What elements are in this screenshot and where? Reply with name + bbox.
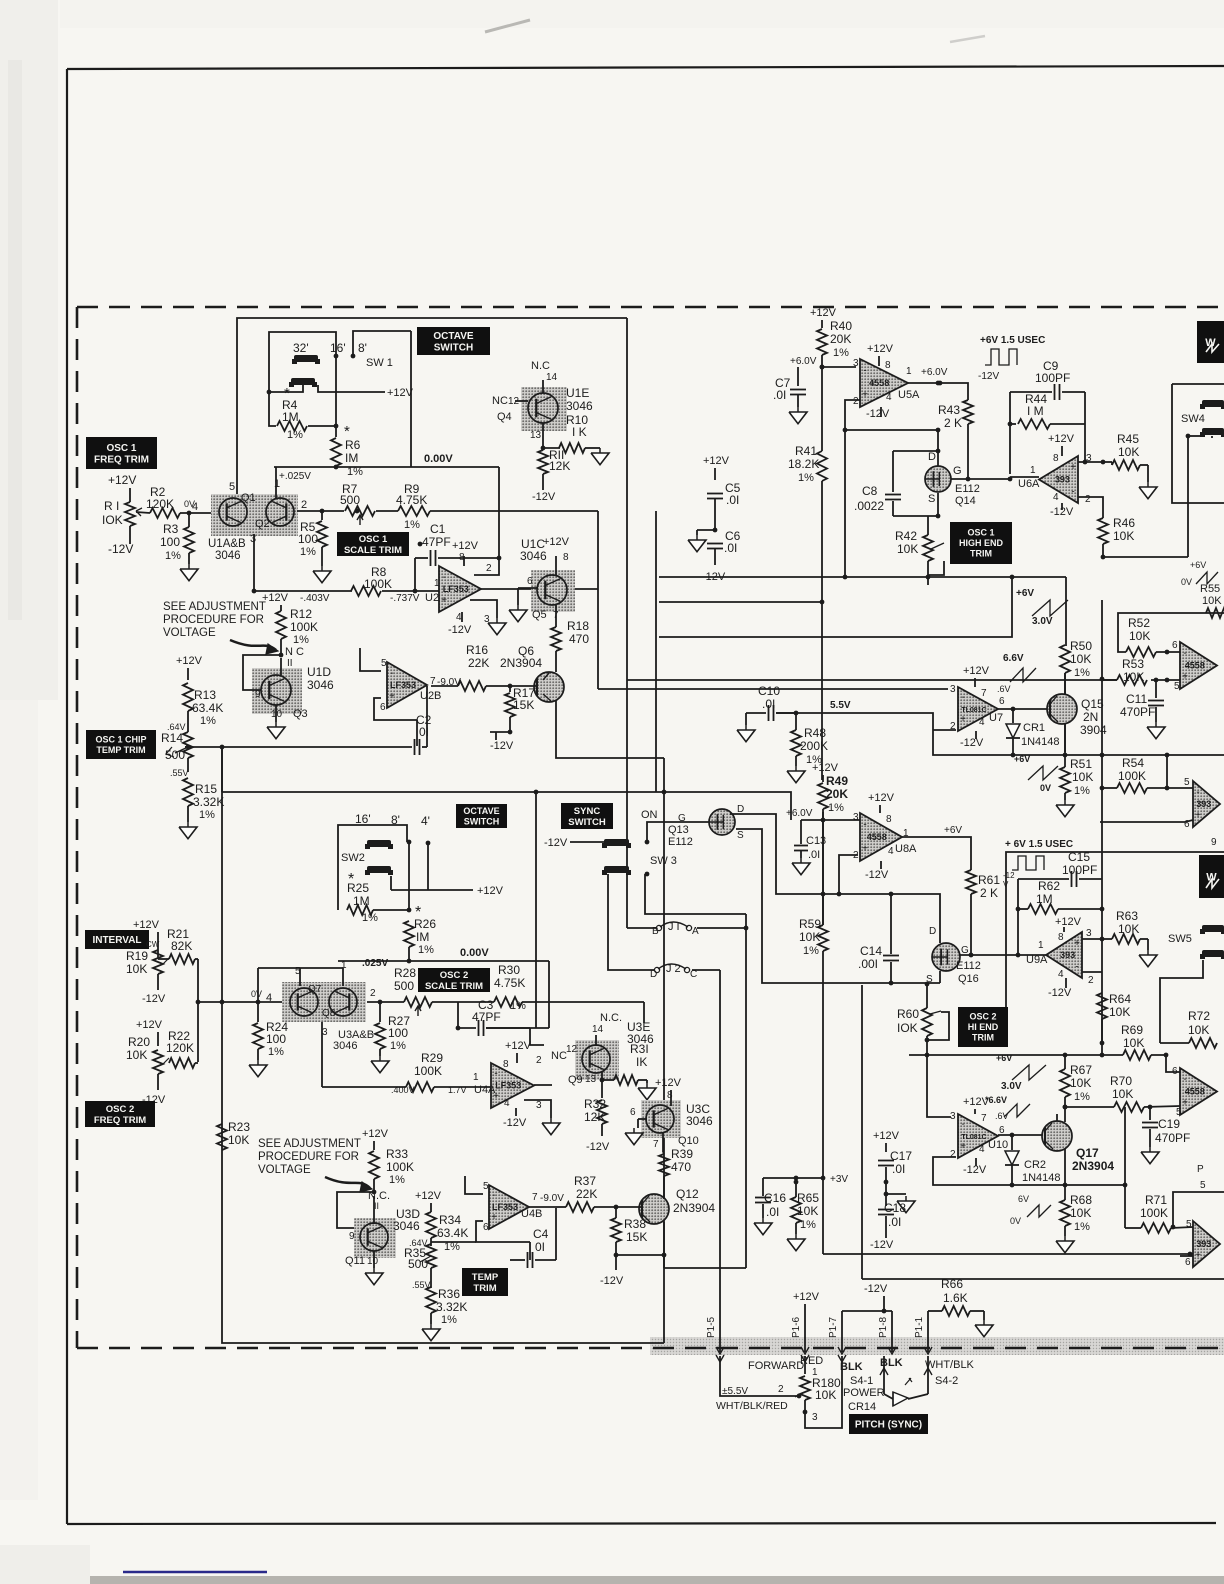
svg-text:R67: R67 bbox=[1070, 1063, 1092, 1077]
svg-text:+12V: +12V bbox=[415, 1190, 442, 1202]
svg-text:12: 12 bbox=[566, 1044, 578, 1055]
svg-text:C10: C10 bbox=[758, 684, 780, 698]
svg-text:C1: C1 bbox=[430, 522, 446, 536]
svg-text:-: - bbox=[1196, 787, 1199, 798]
svg-text:3.0V: 3.0V bbox=[1032, 616, 1053, 627]
svg-text:R12: R12 bbox=[290, 607, 312, 621]
svg-text:PROCEDURE FOR: PROCEDURE FOR bbox=[163, 614, 264, 626]
svg-text:10K: 10K bbox=[126, 1048, 147, 1062]
svg-text:.6V: .6V bbox=[995, 1111, 1009, 1121]
svg-text:S: S bbox=[737, 830, 744, 841]
svg-text:R59: R59 bbox=[799, 917, 821, 931]
svg-text:+12V: +12V bbox=[136, 1019, 163, 1031]
svg-text:393: 393 bbox=[1196, 1239, 1211, 1249]
svg-text:U4B: U4B bbox=[521, 1208, 542, 1220]
svg-text:4.75K: 4.75K bbox=[494, 976, 525, 990]
svg-text:OSC 1: OSC 1 bbox=[359, 534, 388, 545]
svg-text:U6A: U6A bbox=[1018, 478, 1040, 490]
svg-text:SW2: SW2 bbox=[341, 852, 365, 864]
svg-text:OSC 1: OSC 1 bbox=[106, 443, 136, 454]
svg-text:Q1: Q1 bbox=[241, 492, 256, 504]
svg-text:7: 7 bbox=[981, 1113, 987, 1124]
svg-text:R30: R30 bbox=[498, 963, 520, 977]
svg-text:22K: 22K bbox=[576, 1187, 597, 1201]
svg-text:1%: 1% bbox=[418, 944, 434, 956]
svg-text:TRIM: TRIM bbox=[473, 1283, 496, 1294]
svg-text:+12V: +12V bbox=[133, 919, 160, 931]
svg-text:4: 4 bbox=[1053, 492, 1059, 503]
svg-text:R41: R41 bbox=[795, 444, 817, 458]
svg-text:2: 2 bbox=[536, 1055, 542, 1066]
svg-text:2: 2 bbox=[486, 563, 492, 574]
svg-text:Q15: Q15 bbox=[1081, 697, 1104, 711]
svg-text:2 K: 2 K bbox=[980, 886, 998, 900]
svg-text:R53: R53 bbox=[1122, 657, 1144, 671]
svg-text:.0I: .0I bbox=[892, 1162, 905, 1176]
svg-text:10K: 10K bbox=[1118, 922, 1139, 936]
svg-text:1%: 1% bbox=[833, 347, 849, 359]
svg-text:200K: 200K bbox=[800, 739, 828, 753]
svg-text:SWITCH: SWITCH bbox=[464, 816, 500, 826]
svg-text:20K: 20K bbox=[826, 787, 848, 801]
svg-text:SW 1: SW 1 bbox=[366, 357, 393, 369]
svg-text:Q5: Q5 bbox=[532, 609, 547, 621]
svg-text:1%: 1% bbox=[268, 1046, 284, 1058]
svg-text:.00I: .00I bbox=[858, 957, 878, 971]
svg-text:15K: 15K bbox=[513, 698, 534, 712]
svg-text:V: V bbox=[1003, 880, 1009, 889]
svg-text:2: 2 bbox=[1085, 494, 1091, 505]
svg-text:-12V: -12V bbox=[532, 491, 556, 503]
svg-text:.0I: .0I bbox=[724, 541, 737, 555]
svg-text:14: 14 bbox=[546, 372, 558, 383]
svg-text:WHT/BLK/RED: WHT/BLK/RED bbox=[716, 1400, 788, 1412]
svg-text:RED: RED bbox=[800, 1355, 823, 1367]
svg-text:-: - bbox=[494, 1069, 497, 1080]
svg-text:470: 470 bbox=[671, 1160, 691, 1174]
svg-text:9: 9 bbox=[255, 689, 261, 700]
svg-text:5: 5 bbox=[483, 1181, 489, 1192]
svg-text:-12V: -12V bbox=[108, 542, 133, 556]
svg-text:+12V: +12V bbox=[1048, 433, 1075, 445]
svg-text:R16: R16 bbox=[466, 643, 488, 657]
svg-text:LF353: LF353 bbox=[443, 584, 469, 594]
svg-text:R6: R6 bbox=[345, 438, 361, 452]
svg-text:-: - bbox=[492, 1190, 495, 1201]
svg-text:IOK: IOK bbox=[102, 513, 123, 527]
svg-text:+: + bbox=[491, 1212, 497, 1223]
svg-text:10K: 10K bbox=[1070, 1076, 1091, 1090]
svg-text:R19: R19 bbox=[126, 949, 148, 963]
svg-text:+: + bbox=[960, 714, 966, 725]
svg-text:9: 9 bbox=[349, 1231, 355, 1242]
svg-text:100: 100 bbox=[298, 532, 318, 546]
svg-text:100K: 100K bbox=[364, 577, 392, 591]
svg-text:+12V: +12V bbox=[176, 655, 203, 667]
svg-text:82K: 82K bbox=[171, 939, 192, 953]
svg-text:II: II bbox=[287, 658, 293, 669]
svg-text:Q14: Q14 bbox=[955, 495, 976, 507]
svg-text:+: + bbox=[1182, 1098, 1188, 1109]
svg-text:R13: R13 bbox=[194, 688, 216, 702]
svg-text:SEE ADJUSTMENT: SEE ADJUSTMENT bbox=[258, 1138, 361, 1150]
svg-text:+6V: +6V bbox=[1016, 588, 1034, 599]
svg-text:*6.6V: *6.6V bbox=[985, 1095, 1007, 1105]
svg-text:1%: 1% bbox=[389, 1174, 405, 1186]
svg-text:HI END: HI END bbox=[968, 1022, 999, 1032]
svg-text:S: S bbox=[928, 493, 935, 505]
svg-text:+6.0V: +6.0V bbox=[790, 356, 817, 367]
svg-text:+6.0V: +6.0V bbox=[921, 367, 948, 378]
svg-text:+: + bbox=[1195, 810, 1201, 821]
svg-text:-12V: -12V bbox=[544, 837, 568, 849]
svg-text:470PF: 470PF bbox=[1120, 705, 1155, 719]
svg-text:PROCEDURE FOR: PROCEDURE FOR bbox=[258, 1151, 359, 1163]
svg-text:R20: R20 bbox=[128, 1035, 150, 1049]
svg-text:Q7: Q7 bbox=[308, 984, 322, 995]
svg-text:8: 8 bbox=[886, 814, 892, 825]
svg-text:1.6K: 1.6K bbox=[943, 1291, 968, 1305]
svg-text:S4-1: S4-1 bbox=[850, 1375, 873, 1387]
svg-text:SW5: SW5 bbox=[1168, 933, 1192, 945]
svg-text:+12V: +12V bbox=[793, 1291, 820, 1303]
svg-text:I K: I K bbox=[572, 425, 587, 439]
svg-text:-: - bbox=[1071, 487, 1074, 498]
svg-text:Q16: Q16 bbox=[958, 973, 979, 985]
svg-text:R3I: R3I bbox=[630, 1042, 649, 1056]
svg-text:0I: 0I bbox=[535, 1240, 545, 1254]
svg-text:500: 500 bbox=[394, 979, 414, 993]
svg-text:16': 16' bbox=[355, 812, 371, 826]
svg-text:0.00V: 0.00V bbox=[424, 453, 453, 465]
svg-text:.55V: .55V bbox=[170, 768, 189, 778]
svg-text:Q3: Q3 bbox=[293, 708, 308, 720]
svg-text:-12V: -12V bbox=[1048, 987, 1072, 999]
svg-text:N.C.: N.C. bbox=[600, 1012, 622, 1024]
svg-text:R69: R69 bbox=[1121, 1023, 1143, 1037]
svg-text:-.403V: -.403V bbox=[300, 593, 330, 604]
svg-text:4: 4 bbox=[979, 1144, 985, 1155]
svg-text:+12V: +12V bbox=[867, 343, 894, 355]
svg-text:SW4: SW4 bbox=[1181, 413, 1205, 425]
svg-text:-12V: -12V bbox=[586, 1141, 610, 1153]
svg-text:Q12: Q12 bbox=[676, 1187, 699, 1201]
svg-text:Q10: Q10 bbox=[678, 1135, 699, 1147]
svg-text:-12V: -12V bbox=[870, 1239, 894, 1251]
svg-text:1%: 1% bbox=[828, 802, 844, 814]
svg-text:R63: R63 bbox=[1116, 909, 1138, 923]
svg-text:R37: R37 bbox=[574, 1174, 596, 1188]
svg-text:.0I: .0I bbox=[766, 1205, 779, 1219]
svg-text:-: - bbox=[1075, 962, 1078, 973]
svg-text:10K: 10K bbox=[1202, 595, 1222, 607]
svg-text:U1D: U1D bbox=[307, 665, 331, 679]
svg-text:P1-1: P1-1 bbox=[914, 1316, 925, 1338]
svg-text:4: 4 bbox=[888, 846, 894, 857]
svg-text:18.2K: 18.2K bbox=[788, 457, 819, 471]
svg-text:8: 8 bbox=[1058, 932, 1064, 943]
svg-text:8: 8 bbox=[667, 1090, 673, 1101]
svg-text:+12V: +12V bbox=[703, 455, 730, 467]
svg-text:2: 2 bbox=[1088, 975, 1094, 986]
svg-text:R28: R28 bbox=[394, 966, 416, 980]
svg-text:B: B bbox=[652, 926, 659, 937]
svg-text:100: 100 bbox=[388, 1026, 408, 1040]
svg-text:+12V: +12V bbox=[873, 1130, 900, 1142]
svg-text:C8: C8 bbox=[862, 484, 878, 498]
svg-text:3046: 3046 bbox=[686, 1114, 713, 1128]
svg-text:2: 2 bbox=[301, 499, 307, 511]
svg-text:-12V: -12V bbox=[142, 993, 166, 1005]
svg-text:-12V: -12V bbox=[865, 869, 889, 881]
svg-text:0V: 0V bbox=[1010, 1216, 1021, 1226]
svg-text:12K: 12K bbox=[549, 459, 570, 473]
svg-text:-12: -12 bbox=[1003, 871, 1015, 880]
svg-text:IM: IM bbox=[345, 451, 358, 465]
svg-text:R43: R43 bbox=[938, 403, 960, 417]
svg-text:1%: 1% bbox=[200, 715, 216, 727]
svg-text:TL081C: TL081C bbox=[961, 1134, 986, 1141]
svg-text:SWITCH: SWITCH bbox=[434, 342, 473, 353]
svg-text:HIGH END: HIGH END bbox=[959, 538, 1004, 548]
svg-text:8: 8 bbox=[1053, 453, 1059, 464]
svg-text:-12V: -12V bbox=[490, 740, 514, 752]
svg-text:5: 5 bbox=[1184, 777, 1190, 788]
svg-text:FORWARD: FORWARD bbox=[748, 1360, 804, 1372]
svg-text:6: 6 bbox=[527, 576, 533, 587]
svg-text:U10: U10 bbox=[988, 1139, 1008, 1151]
svg-text:R33: R33 bbox=[386, 1147, 408, 1161]
svg-text:393: 393 bbox=[1055, 475, 1070, 485]
svg-text:R52: R52 bbox=[1128, 616, 1150, 630]
svg-text:POWER: POWER bbox=[843, 1387, 885, 1399]
svg-text:C4: C4 bbox=[533, 1227, 549, 1241]
svg-text:+: + bbox=[862, 843, 868, 854]
svg-text:+12V: +12V bbox=[477, 885, 504, 897]
svg-text:CR1: CR1 bbox=[1023, 722, 1045, 734]
svg-text:I M: I M bbox=[1027, 404, 1044, 418]
svg-text:120K: 120K bbox=[146, 497, 174, 511]
svg-text:U8A: U8A bbox=[895, 843, 917, 855]
svg-text:LF353: LF353 bbox=[492, 1202, 518, 1212]
svg-text:8: 8 bbox=[503, 1059, 509, 1070]
svg-text:1%: 1% bbox=[1074, 1091, 1090, 1103]
svg-text:FREQ TRIM: FREQ TRIM bbox=[94, 1115, 146, 1126]
svg-text:1%: 1% bbox=[293, 634, 309, 646]
svg-text:5: 5 bbox=[229, 481, 235, 493]
svg-text:100K: 100K bbox=[290, 620, 318, 634]
svg-text:4: 4 bbox=[192, 501, 198, 513]
svg-text:+6V: +6V bbox=[996, 1053, 1012, 1063]
svg-text:.6V: .6V bbox=[997, 684, 1011, 694]
svg-text:-: - bbox=[863, 819, 866, 830]
svg-text:R60: R60 bbox=[897, 1007, 919, 1021]
svg-text:.025V: .025V bbox=[362, 958, 388, 969]
svg-text:OCTAVE: OCTAVE bbox=[463, 806, 499, 816]
svg-text:+: + bbox=[1182, 672, 1188, 683]
svg-text:47PF: 47PF bbox=[422, 535, 451, 549]
svg-text:NC: NC bbox=[551, 1050, 567, 1062]
svg-text:IM: IM bbox=[416, 930, 429, 944]
svg-text:4558: 4558 bbox=[869, 378, 889, 388]
svg-text:1%: 1% bbox=[199, 809, 215, 821]
svg-text:+6V: +6V bbox=[1014, 754, 1030, 764]
svg-text:2N3904: 2N3904 bbox=[500, 656, 542, 670]
svg-text:P1-8: P1-8 bbox=[878, 1316, 889, 1338]
svg-text:3: 3 bbox=[950, 1111, 956, 1122]
svg-text:.0022: .0022 bbox=[854, 499, 884, 513]
svg-text:+6V 1.5 USEC: +6V 1.5 USEC bbox=[980, 335, 1045, 346]
svg-text:U1A&B: U1A&B bbox=[208, 538, 246, 550]
svg-text:+: + bbox=[389, 691, 395, 702]
svg-text:63.4K: 63.4K bbox=[192, 701, 223, 715]
svg-text:10K: 10K bbox=[1109, 1005, 1130, 1019]
svg-text:+3V: +3V bbox=[830, 1174, 848, 1185]
svg-text:10K: 10K bbox=[1070, 652, 1091, 666]
svg-text:1N4148: 1N4148 bbox=[1022, 1172, 1061, 1184]
svg-text:5: 5 bbox=[381, 658, 387, 669]
svg-text:3: 3 bbox=[1086, 928, 1092, 939]
svg-text:R45: R45 bbox=[1117, 432, 1139, 446]
svg-text:8: 8 bbox=[885, 360, 891, 371]
svg-text:PITCH (SYNC): PITCH (SYNC) bbox=[855, 1420, 922, 1431]
svg-text:-.737V: -.737V bbox=[390, 593, 420, 604]
svg-text:1%: 1% bbox=[1074, 1221, 1090, 1233]
svg-text:N.C: N.C bbox=[531, 360, 550, 372]
svg-text:E112: E112 bbox=[956, 960, 981, 972]
svg-text:6V: 6V bbox=[1018, 1194, 1029, 1204]
svg-text:N C: N C bbox=[285, 646, 304, 658]
svg-text:E112: E112 bbox=[668, 836, 693, 848]
svg-text:R23: R23 bbox=[228, 1120, 250, 1134]
svg-text:14: 14 bbox=[592, 1024, 604, 1035]
svg-text:TRIM: TRIM bbox=[970, 549, 992, 559]
svg-text:10K: 10K bbox=[897, 542, 918, 556]
svg-text:C15: C15 bbox=[1068, 850, 1090, 864]
svg-text:INTERVAL: INTERVAL bbox=[92, 935, 141, 946]
svg-text:120K: 120K bbox=[166, 1041, 194, 1055]
svg-text:P1-5: P1-5 bbox=[706, 1316, 717, 1338]
svg-text:-12V: -12V bbox=[963, 1164, 987, 1176]
svg-text:D: D bbox=[928, 451, 936, 463]
svg-text:3: 3 bbox=[812, 1412, 818, 1423]
svg-text:G: G bbox=[961, 945, 969, 956]
svg-text:SWITCH: SWITCH bbox=[568, 817, 606, 828]
svg-text:NC: NC bbox=[492, 395, 508, 407]
svg-text:C19: C19 bbox=[1158, 1117, 1180, 1131]
svg-text:SEE ADJUSTMENT: SEE ADJUSTMENT bbox=[163, 601, 266, 613]
svg-text:Q13: Q13 bbox=[668, 824, 689, 836]
svg-text:2N: 2N bbox=[1083, 710, 1098, 724]
svg-text:+12V: +12V bbox=[387, 387, 414, 399]
svg-text:R40: R40 bbox=[830, 319, 852, 333]
svg-text:22K: 22K bbox=[468, 656, 489, 670]
svg-text:TEMP TRIM: TEMP TRIM bbox=[96, 745, 145, 755]
svg-text:2: 2 bbox=[778, 1384, 784, 1395]
svg-text:6: 6 bbox=[1172, 1066, 1178, 1077]
svg-text:OSC 2: OSC 2 bbox=[969, 1012, 996, 1022]
svg-text:-12V: -12V bbox=[978, 371, 999, 382]
svg-text:.0I: .0I bbox=[808, 849, 820, 861]
svg-text:3046: 3046 bbox=[566, 399, 593, 413]
svg-text:6: 6 bbox=[630, 1107, 636, 1118]
svg-text:TRIM: TRIM bbox=[972, 1033, 994, 1043]
svg-text:1%: 1% bbox=[404, 519, 420, 531]
svg-text:15K: 15K bbox=[626, 1230, 647, 1244]
svg-text:1: 1 bbox=[473, 1072, 479, 1083]
svg-text:R36: R36 bbox=[438, 1287, 460, 1301]
svg-text:6: 6 bbox=[380, 702, 386, 713]
svg-text:10K: 10K bbox=[1112, 1087, 1133, 1101]
svg-text:C18: C18 bbox=[884, 1201, 906, 1215]
svg-text:4: 4 bbox=[979, 717, 985, 728]
svg-text:+12V: +12V bbox=[543, 536, 570, 548]
svg-text:3046: 3046 bbox=[393, 1219, 420, 1233]
svg-text:-12V: -12V bbox=[866, 408, 890, 420]
svg-text:4': 4' bbox=[421, 814, 430, 828]
svg-text:10K: 10K bbox=[1113, 529, 1134, 543]
svg-text:.0I: .0I bbox=[726, 493, 739, 507]
svg-text:6: 6 bbox=[999, 696, 1005, 707]
svg-text:100: 100 bbox=[160, 535, 180, 549]
svg-text:+: + bbox=[1195, 1250, 1201, 1261]
svg-text:R29: R29 bbox=[421, 1051, 443, 1065]
svg-text:3046: 3046 bbox=[307, 678, 334, 692]
svg-text:3: 3 bbox=[853, 812, 859, 823]
svg-text:+12V: +12V bbox=[655, 1077, 682, 1089]
svg-text:63.4K: 63.4K bbox=[437, 1226, 468, 1240]
svg-text:10K: 10K bbox=[799, 930, 820, 944]
svg-text:3046: 3046 bbox=[215, 550, 241, 562]
svg-text:.0I: .0I bbox=[773, 388, 786, 402]
svg-text:3.32K: 3.32K bbox=[193, 795, 224, 809]
svg-text:3046: 3046 bbox=[520, 549, 547, 563]
svg-text:C14: C14 bbox=[860, 944, 882, 958]
svg-text:+12V: +12V bbox=[505, 1040, 532, 1052]
svg-text:Q2: Q2 bbox=[255, 518, 270, 530]
svg-text:393: 393 bbox=[1196, 799, 1211, 809]
svg-text:5: 5 bbox=[1200, 1180, 1206, 1191]
svg-text:R25: R25 bbox=[347, 881, 369, 895]
svg-text:R62: R62 bbox=[1038, 879, 1060, 893]
svg-text:G: G bbox=[953, 465, 962, 477]
svg-text:+12V: +12V bbox=[108, 473, 136, 487]
svg-text:R71: R71 bbox=[1145, 1193, 1167, 1207]
svg-text:R38: R38 bbox=[624, 1217, 646, 1231]
svg-text:4558: 4558 bbox=[1185, 661, 1205, 671]
svg-text:4: 4 bbox=[504, 1098, 510, 1109]
svg-text:R50: R50 bbox=[1070, 639, 1092, 653]
svg-text:R70: R70 bbox=[1110, 1074, 1132, 1088]
svg-text:6: 6 bbox=[1172, 640, 1178, 651]
svg-text:16': 16' bbox=[330, 341, 346, 355]
svg-text:W: W bbox=[1205, 337, 1216, 349]
svg-text:+12V: +12V bbox=[452, 540, 479, 552]
svg-text:R72: R72 bbox=[1188, 1009, 1210, 1023]
svg-text:+6V: +6V bbox=[944, 825, 962, 836]
svg-text:6: 6 bbox=[1185, 1257, 1191, 1268]
svg-text:R66: R66 bbox=[941, 1277, 963, 1291]
svg-text:3904: 3904 bbox=[1080, 723, 1107, 737]
svg-text:1%: 1% bbox=[1074, 667, 1090, 679]
svg-text:SCALE TRIM: SCALE TRIM bbox=[425, 981, 483, 992]
svg-text:-: - bbox=[1183, 648, 1186, 659]
svg-text:-: - bbox=[442, 572, 445, 583]
svg-text:R55: R55 bbox=[1200, 583, 1220, 595]
svg-text:10K: 10K bbox=[1118, 445, 1139, 459]
svg-text:10K: 10K bbox=[1188, 1023, 1209, 1037]
svg-text:1%: 1% bbox=[347, 466, 363, 478]
